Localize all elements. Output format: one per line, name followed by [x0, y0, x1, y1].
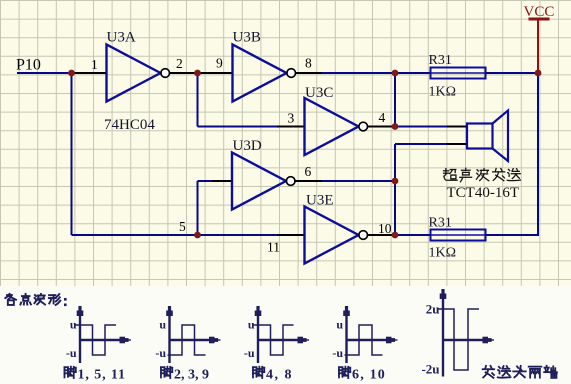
pin 6 of U3D — [296, 180, 323, 182]
wire to pin 5 — [198, 180, 213, 182]
svg-text:4, 8: 4, 8 — [266, 368, 293, 383]
svg-text:6: 6 — [305, 164, 312, 179]
svg-text:U3C: U3C — [305, 85, 333, 101]
wire net4 vertical — [394, 144, 396, 235]
wire net1 up to U3D input — [197, 181, 199, 235]
pin 2 of U3A — [170, 72, 198, 74]
svg-text:8: 8 — [305, 56, 312, 71]
svg-text:3: 3 — [288, 111, 295, 126]
speaker pin top — [447, 126, 467, 128]
svg-text:2u: 2u — [426, 302, 440, 317]
svg-text:1, 5, 11: 1, 5, 11 — [78, 368, 126, 383]
wire R31 bottom to VCC rail — [486, 234, 539, 236]
op-amp-style inverter U3A — [107, 45, 170, 102]
svg-text:P10: P10 — [16, 57, 41, 74]
resistor R31 (top) — [431, 68, 486, 79]
svg-text:R31: R31 — [429, 53, 452, 68]
svg-text:6, 10: 6, 10 — [352, 368, 386, 383]
inverter U3B — [233, 45, 296, 102]
svg-text:R31: R31 — [429, 216, 452, 231]
inverter U3E — [305, 207, 368, 264]
waveform label: pins 1,5,11 — [64, 367, 75, 378]
pin 3 of U3C — [277, 126, 305, 128]
wire P10 to junction A — [17, 72, 72, 74]
waveform transducer terminals — [437, 289, 494, 377]
waveform pins 6,10 — [343, 306, 397, 363]
svg-text:4: 4 — [379, 110, 386, 125]
svg-text:9: 9 — [216, 56, 223, 71]
junction node A (P10/pin1/net1) — [68, 70, 75, 77]
svg-text:2: 2 — [176, 56, 183, 71]
svg-text:1: 1 — [91, 57, 98, 72]
VCC rail vertical — [537, 73, 539, 236]
waveform label: pins 4,8 — [253, 367, 264, 378]
pin 4 of U3C — [368, 126, 395, 128]
svg-text:-u: -u — [155, 346, 166, 360]
svg-text:10: 10 — [378, 221, 392, 236]
svg-text:TCT40-16T: TCT40-16T — [447, 185, 520, 201]
svg-text:1KΩ: 1KΩ — [429, 85, 457, 100]
svg-text:U3D: U3D — [233, 138, 262, 154]
svg-text:u: u — [336, 318, 343, 332]
junction node H (pin5/pin11) — [194, 232, 201, 239]
svg-text:U3E: U3E — [306, 193, 334, 209]
wire net2 to pin 3 — [198, 126, 278, 128]
pin 5 of U3D — [212, 180, 232, 182]
pin 10 of U3E — [368, 234, 395, 236]
svg-text:-u: -u — [244, 346, 255, 360]
inverter U3D — [232, 153, 295, 210]
svg-text:74HC04: 74HC04 — [104, 117, 155, 133]
speaker pin bottom — [447, 143, 467, 145]
annotation text: ultrasonic transmit (Chinese) — [444, 169, 458, 181]
svg-text:U3A: U3A — [107, 30, 136, 46]
waveform label: across transmit head (Chinese) — [483, 366, 495, 378]
section title: waveforms at each node (Chinese) — [5, 294, 16, 305]
svg-text:-u: -u — [332, 346, 343, 360]
svg-text:-2u: -2u — [421, 362, 439, 377]
svg-text:VCC: VCC — [524, 4, 555, 20]
junction node B (pin2/pin9/pin3) — [194, 70, 201, 77]
wire net4 to R31 bottom — [395, 234, 431, 236]
junction node D (VCC rail) — [535, 70, 542, 77]
wire vertical net1 (pin1/5/11) — [71, 73, 73, 235]
wire net4 to speaker bottom — [395, 143, 447, 145]
wire net4 to vertical — [322, 180, 395, 182]
pin 9 of U3B — [198, 72, 233, 74]
wire net3 to R31 top — [322, 72, 431, 74]
waveform area background — [0, 286, 571, 384]
waveform label: pins 6,10 — [339, 367, 350, 378]
junction node F (pin10/R31 bottom) — [392, 232, 399, 239]
junction node C (pin8/R31/net3) — [392, 70, 399, 77]
schematic background — [0, 0, 571, 286]
waveform pins 1,5,11 — [74, 306, 131, 363]
pin 8 of U3B — [296, 72, 322, 74]
svg-text:u: u — [70, 318, 77, 332]
wire net3 to speaker top — [395, 126, 447, 128]
junction node G (pin4/speaker+) — [392, 123, 399, 130]
wire R31 top to VCC rail — [486, 72, 538, 74]
svg-text:U3B: U3B — [233, 30, 261, 46]
svg-text:11: 11 — [267, 240, 280, 255]
junction node E (pin6/net4) — [392, 178, 399, 185]
svg-text:2, 3, 9: 2, 3, 9 — [174, 368, 209, 383]
svg-text:-u: -u — [66, 346, 77, 360]
resistor R31 (bottom) — [431, 230, 486, 241]
wire net2 down to U3C input — [197, 73, 199, 127]
pin 1 of U3A — [72, 72, 107, 74]
wire net3 down to pin4 node — [394, 73, 396, 127]
waveform pins 4,8 — [252, 306, 309, 363]
svg-text:5: 5 — [179, 219, 186, 234]
waveform label: pins 2,3,9 — [161, 367, 172, 378]
svg-text:u: u — [248, 318, 255, 332]
inverter U3C — [305, 98, 368, 155]
wire net1 horizontal to U3E — [72, 234, 278, 236]
pin 11 of U3E — [277, 234, 305, 236]
VCC power symbol — [529, 19, 550, 73]
waveform pins 2,3,9 — [166, 306, 220, 363]
svg-text:1KΩ: 1KΩ — [429, 246, 457, 261]
svg-text:u: u — [159, 318, 166, 332]
speaker / ultrasonic transducer LS1 — [467, 111, 508, 162]
